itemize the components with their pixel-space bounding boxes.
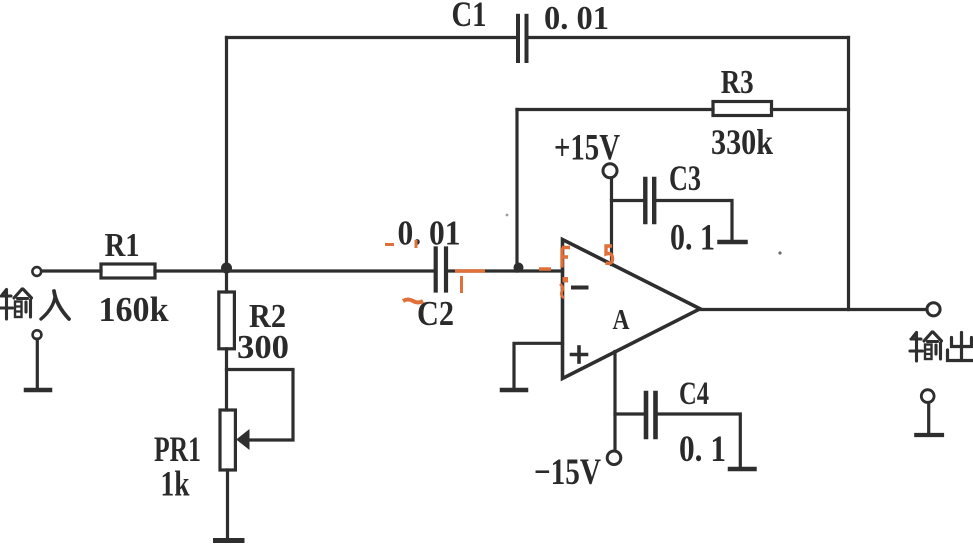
ground bar C3: [720, 240, 746, 245]
wire C2 to op-amp inverting input: [448, 269, 563, 272]
svg-text:300: 300: [237, 329, 289, 366]
wire R3 left segment: [517, 108, 713, 111]
ground bar PR1: [216, 538, 243, 543]
wire R2 top: [225, 271, 228, 292]
wire +15V to op-amp: [610, 178, 613, 265]
wire C1 branch vertical left: [225, 38, 228, 272]
wire PR1 to ground: [226, 470, 229, 539]
svg-text:1k: 1k: [161, 464, 190, 504]
PR1 wiper arrow: [236, 429, 249, 450]
ground bar non-inverting: [502, 388, 526, 393]
capacitor C2: [436, 249, 446, 291]
wire C1 to right vertical: [529, 36, 849, 39]
input terminal circle: [32, 267, 41, 276]
wire output reference: [927, 403, 930, 434]
svg-text:−15V: −15V: [534, 452, 601, 493]
resistor R1: [101, 264, 155, 278]
wire R2 bottom to PR1: [225, 349, 228, 410]
artifact squiggle below: [560, 284, 564, 298]
capacitor C1: [518, 16, 527, 61]
wire op-amp to -15V: [613, 352, 616, 451]
artifact vertical dribble: [460, 276, 463, 293]
wire wiper branch: [227, 370, 294, 441]
node junction R1/R2/C1: [221, 263, 232, 274]
wire R3 right segment: [772, 108, 849, 111]
wire +15V to C3: [612, 199, 644, 202]
scan artifact orange marks: [385, 240, 613, 303]
node junction feedback/inverting input: [514, 263, 524, 273]
op-amp non-inverting pin plus: [572, 347, 587, 362]
op-amp inverting pin minus: [573, 286, 587, 290]
svg-text:R1: R1: [105, 227, 140, 264]
artifact tick after first 0: [415, 240, 418, 248]
wire -15V to C4: [615, 412, 643, 415]
power +15V terminal: [603, 164, 617, 178]
svg-text:160k: 160k: [99, 290, 170, 329]
artifact overlay on wire right of C2: [455, 269, 485, 273]
wire C3 to ground: [657, 201, 733, 241]
capacitor C3: [645, 179, 654, 222]
input reference terminal: [33, 330, 42, 339]
artifact F shape on op-amp edge: [562, 248, 570, 268]
ground bar output reference: [916, 433, 942, 437]
label input (hanzi shu): [0, 289, 32, 319]
label output (hanzi shu): [910, 332, 942, 361]
svg-text:C1: C1: [452, 0, 487, 34]
ground bar C4: [730, 467, 755, 472]
potentiometer PR1: [220, 410, 235, 470]
resistor R2: [219, 292, 235, 349]
output terminal circle: [927, 303, 940, 316]
speck: [778, 251, 781, 254]
wire C4 to ground: [658, 414, 740, 467]
wire R3 to inverting node vertical: [515, 110, 518, 272]
artifact dash left of C2 label: [385, 243, 394, 246]
svg-text:0. 1: 0. 1: [670, 218, 715, 259]
wire feedback right vertical: [847, 38, 850, 310]
svg-text:0. 01: 0. 01: [544, 0, 609, 37]
svg-text:0. 01: 0. 01: [398, 214, 461, 253]
label input (hanzi ru): [41, 291, 69, 319]
output reference terminal: [921, 390, 934, 403]
wire R1 to C2: [155, 269, 434, 272]
wire top run to C1: [227, 36, 517, 39]
artifact scribble left of C2 text: [403, 300, 423, 303]
svg-text:A: A: [613, 304, 630, 336]
wire input reference: [36, 339, 39, 388]
wire non-inverting input to ground: [514, 343, 563, 387]
svg-text:0. 1: 0. 1: [679, 429, 726, 470]
op-amp A triangle: [563, 240, 701, 379]
ground bar input reference: [26, 388, 50, 393]
artifact 5-shape at op-amp top: [606, 246, 613, 263]
svg-text:C4: C4: [679, 376, 709, 412]
svg-text:330k: 330k: [711, 122, 773, 162]
svg-text:R3: R3: [721, 64, 754, 101]
svg-text:C2: C2: [417, 294, 454, 333]
wire input to R1: [42, 269, 102, 272]
power -15V terminal: [607, 451, 621, 465]
svg-text:+15V: +15V: [554, 128, 620, 169]
artifact blob under minus: [563, 277, 569, 283]
label output (hanzi chu): [948, 333, 973, 361]
artifact dash before op-amp: [539, 267, 551, 271]
resistor R3: [713, 102, 772, 116]
svg-text:C3: C3: [669, 158, 701, 198]
wire op-amp output: [700, 308, 927, 311]
capacitor C4: [646, 393, 656, 437]
